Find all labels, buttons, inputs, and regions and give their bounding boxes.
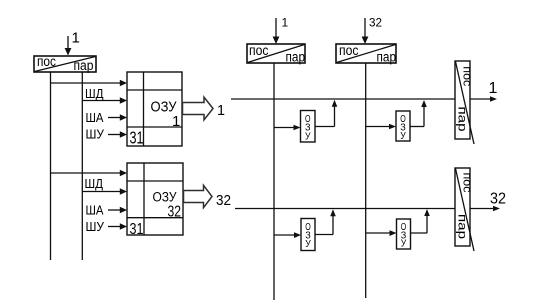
svg-text:У: У [401,238,407,250]
svg-text:пар: пар [286,49,306,64]
svg-text:1: 1 [282,16,289,30]
svg-text:пар: пар [456,214,468,239]
svg-text:У: У [305,238,311,250]
svg-text:32: 32 [369,16,382,30]
svg-text:пар: пар [74,58,94,73]
svg-text:пос: пос [339,43,359,58]
svg-text:пар: пар [456,107,468,132]
svg-text:У: У [305,131,311,143]
svg-text:1: 1 [172,113,180,130]
svg-text:ШД: ШД [85,86,104,101]
svg-text:ШД: ШД [85,176,104,191]
svg-text:32: 32 [168,203,182,220]
svg-text:ШУ: ШУ [86,126,105,141]
svg-text:31: 31 [130,221,144,238]
svg-text:пос: пос [461,66,473,86]
svg-text:1: 1 [489,80,498,97]
svg-text:32: 32 [216,192,231,209]
svg-text:пос: пос [37,54,56,69]
svg-text:1: 1 [217,103,225,119]
svg-text:пос: пос [249,43,269,58]
svg-text:ША: ША [86,110,104,125]
svg-text:31: 31 [130,127,144,147]
svg-text:32: 32 [490,191,506,208]
svg-text:ОЗУ: ОЗУ [153,189,178,205]
svg-text:У: У [400,130,406,142]
svg-text:1: 1 [72,30,80,47]
svg-text:ША: ША [86,202,104,217]
svg-text:пар: пар [377,49,397,64]
svg-text:ШУ: ШУ [86,219,105,234]
svg-text:пос: пос [461,173,473,193]
